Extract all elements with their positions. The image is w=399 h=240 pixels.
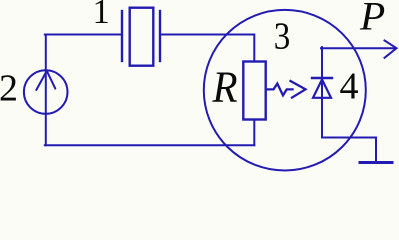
photodiode VD: triangle (anode, pointing up) xyxy=(313,80,331,98)
svg-text:2: 2 xyxy=(0,68,18,110)
wire: resistor bottom lead xyxy=(253,120,255,146)
svg-text:4: 4 xyxy=(340,66,359,108)
wire: diode top lead to output node xyxy=(321,47,323,78)
svg-text:3: 3 xyxy=(274,14,291,57)
wire: left vertical branch (source leg) xyxy=(45,35,47,146)
output arrow P: shaft xyxy=(321,47,396,49)
crystal resonator X (element 1): left plate xyxy=(121,11,123,61)
svg-text:P: P xyxy=(359,0,385,38)
wire: crystal right lead to resistor top, corner node xyxy=(161,35,254,62)
label 4 (photodiode) xyxy=(340,66,359,108)
wire: diode axis through triangle xyxy=(321,78,323,98)
label 3 (photodetector) xyxy=(274,14,291,57)
light arrow open head xyxy=(291,81,306,98)
current source arrow head xyxy=(36,71,55,90)
svg-text:1: 1 xyxy=(93,0,110,31)
current source I (element 2): circle xyxy=(24,70,68,114)
envelope circle of photodetector (element 3) xyxy=(204,10,366,171)
label R (resistor) xyxy=(212,63,238,112)
svg-text:R: R xyxy=(212,63,238,112)
output arrow P: open head xyxy=(385,41,397,58)
crystal resonator X: right plate xyxy=(159,11,161,61)
wire: diode bottom lead to ground branch xyxy=(322,98,376,162)
crystal resonator X: quartz body rectangle xyxy=(130,8,154,66)
label 1 (crystal) xyxy=(93,0,110,31)
wire: bottom horizontal return xyxy=(45,144,255,146)
resistor R body xyxy=(243,62,265,120)
wire: top horizontal, node between source and crystal xyxy=(45,34,121,36)
ground bar xyxy=(360,161,392,164)
photodiode VD (element 4): cathode bar xyxy=(312,77,332,79)
label P (output power) xyxy=(359,0,385,38)
light emission arrow (squiggle) from R to diode xyxy=(268,84,293,96)
label 2 (current source) xyxy=(0,68,18,110)
